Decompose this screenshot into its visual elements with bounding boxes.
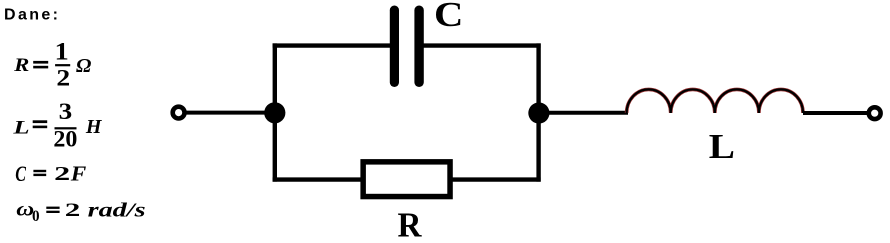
terminal right: [869, 107, 881, 119]
wire right vertical branch: [536, 43, 540, 181]
svg-text:F: F: [70, 161, 87, 185]
svg-text:C: C: [434, 0, 463, 34]
svg-text:2: 2: [54, 163, 70, 185]
value label C = 2 F: [15, 161, 86, 186]
svg-text:3: 3: [59, 99, 73, 125]
svg-text:1: 1: [55, 38, 69, 65]
value label omega0 = 2 rad/s: [16, 199, 145, 225]
svg-text:20: 20: [53, 127, 77, 153]
capacitor C plates: [390, 6, 424, 88]
node A (left junction): [264, 102, 285, 123]
wire left terminal to node: [184, 111, 275, 115]
svg-text:L: L: [709, 127, 735, 166]
wire node B to inductor: [539, 111, 628, 115]
wire inductor to right terminal: [803, 111, 868, 115]
wire bottom branch right: [450, 177, 541, 181]
value label R = 1/2 Ohm: [13, 38, 91, 91]
svg-text:rad/s: rad/s: [88, 199, 146, 221]
terminal left: [173, 107, 185, 119]
wire top branch left: [273, 43, 391, 47]
svg-text:H: H: [85, 116, 103, 138]
svg-text:R: R: [398, 206, 423, 243]
resistor R body: [363, 162, 450, 197]
svg-text:C: C: [15, 161, 26, 186]
svg-text:2: 2: [56, 66, 70, 92]
wire bottom branch left: [273, 177, 364, 181]
svg-text:0: 0: [32, 208, 40, 225]
svg-text:L: L: [12, 117, 30, 138]
wire left vertical branch: [273, 43, 277, 181]
wire top branch right: [424, 43, 541, 47]
value label L = 3/20 H: [12, 99, 103, 153]
node B (right junction): [528, 102, 549, 123]
inductor L coil: [627, 89, 803, 113]
svg-text:Dane:: Dane:: [4, 6, 58, 23]
svg-text:Ω: Ω: [76, 55, 91, 77]
svg-text:R: R: [13, 55, 29, 76]
svg-text:2: 2: [65, 200, 81, 221]
